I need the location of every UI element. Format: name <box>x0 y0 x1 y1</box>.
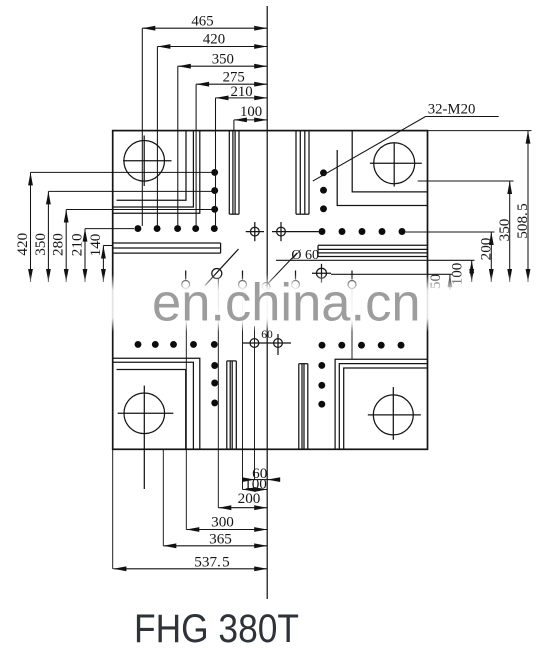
tie-bar hole BL <box>118 386 174 489</box>
svg-text:420: 420 <box>203 32 225 48</box>
svg-text:Ø 60: Ø 60 <box>291 248 319 263</box>
corner pocket TR <box>337 131 427 206</box>
ejector mark C (center) <box>262 283 270 291</box>
ejector mark B <box>239 271 247 289</box>
dimension 465 top <box>142 28 267 226</box>
svg-text:350: 350 <box>496 218 513 241</box>
extension line mark A down <box>185 289 187 530</box>
dimension 350 left <box>48 191 212 282</box>
tapped holes TR column <box>320 169 327 212</box>
dimension 537.5 bottom <box>113 568 267 570</box>
svg-text:350: 350 <box>32 233 49 256</box>
dimension 100 top <box>234 120 267 131</box>
platen outline <box>113 131 428 450</box>
corner pocket TL <box>113 131 200 214</box>
dimension 280 left <box>66 210 212 283</box>
dimension 350 top <box>178 66 267 226</box>
T-slot bottom-right vertical <box>299 364 308 450</box>
tapped holes TR row <box>319 228 406 235</box>
dimension 200 bottom <box>218 507 267 509</box>
dimension 100 bottom <box>243 489 268 491</box>
T-slot left horizontal <box>113 243 221 253</box>
tapped holes TL row <box>134 225 217 232</box>
svg-text:280: 280 <box>50 233 67 256</box>
T-slot top-right vertical <box>296 131 309 215</box>
svg-text:420: 420 <box>14 232 31 255</box>
dimension 210 top <box>216 98 268 226</box>
svg-text:365: 365 <box>209 531 232 548</box>
tapped holes BL column <box>211 362 218 406</box>
tie-bar hole TL <box>123 136 172 187</box>
dimension 508.5 right <box>428 131 532 282</box>
locating hole upper-right of center <box>272 222 319 241</box>
tapped holes BL row <box>135 341 218 348</box>
tapped holes BR column <box>318 362 325 408</box>
svg-text:350: 350 <box>212 51 234 67</box>
ejector mark D <box>292 271 300 289</box>
slashed hole left of center <box>205 249 239 286</box>
leader 32-M20 <box>313 117 499 182</box>
dimension 210 left <box>85 229 134 282</box>
T-slot bottom-left vertical <box>227 361 237 449</box>
extension line lower locating hole down <box>254 326 256 480</box>
dimension 50 right <box>331 274 453 290</box>
locating hole lower-left of center <box>250 339 259 348</box>
tie-bar hole TR <box>370 143 422 187</box>
ejector mark A <box>182 271 190 289</box>
leader dia-60 upper <box>266 253 298 286</box>
dimension 275 top <box>196 84 267 226</box>
extension line mark E down <box>351 289 353 359</box>
dimension 350 right <box>418 181 514 282</box>
watermark text en.china.cn <box>152 274 421 333</box>
dimension 100 right <box>276 260 475 282</box>
tapped holes BR row <box>319 342 405 349</box>
extension line 365 below plate <box>162 449 164 546</box>
svg-text:32-M20: 32-M20 <box>428 102 476 118</box>
extension line mark B down <box>242 289 244 490</box>
tapped holes TL column <box>211 169 218 213</box>
svg-text:300: 300 <box>211 514 234 531</box>
svg-text:100: 100 <box>240 104 262 120</box>
ejector mark E <box>348 271 356 289</box>
dimension 60 bottom <box>245 479 278 481</box>
svg-text:200: 200 <box>238 490 261 507</box>
dimension 420 top <box>157 47 267 227</box>
watermark white band <box>0 274 551 332</box>
svg-text:en.china.cn: en.china.cn <box>152 274 421 333</box>
dimension 365 bottom <box>163 545 267 547</box>
crossline through lower locating holes <box>243 342 291 344</box>
corner pocket BR <box>335 359 427 449</box>
corner pocket BL <box>113 358 200 449</box>
tie-bar hole BR <box>368 387 421 440</box>
svg-text:210: 210 <box>230 84 252 100</box>
dimension 140 left <box>103 246 113 283</box>
locating hole lower-right of center <box>274 334 283 355</box>
dimension 420 left <box>31 172 213 282</box>
T-slot top-left vertical <box>229 131 239 215</box>
svg-text:508. 5: 508. 5 <box>514 203 531 238</box>
svg-text:465: 465 <box>191 14 213 30</box>
svg-text:140: 140 <box>87 233 104 256</box>
svg-text:200: 200 <box>477 237 494 260</box>
locating hole upper-left of center <box>246 222 264 241</box>
svg-text:537. 5: 537. 5 <box>194 554 229 571</box>
T-slot right horizontal <box>318 245 428 256</box>
dimension 300 bottom <box>186 529 267 531</box>
dimension 200 right <box>406 232 495 282</box>
svg-text:210: 210 <box>68 233 85 256</box>
svg-text:FHG 380T: FHG 380T <box>134 607 299 648</box>
extension line slashed hole down <box>217 279 219 508</box>
extension line 537.5 below plate <box>112 449 114 569</box>
crossed hole right of center <box>312 264 331 283</box>
vertical centerline <box>266 6 268 599</box>
